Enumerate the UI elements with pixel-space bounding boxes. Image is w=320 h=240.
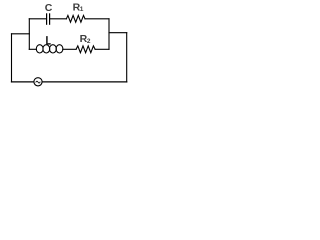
wire bottom rail right of source bbox=[42, 81, 127, 83]
wire right jog bbox=[109, 32, 127, 34]
inductor L coil loop 1 bbox=[36, 45, 43, 53]
svg-text:2: 2 bbox=[87, 38, 91, 45]
wire top rail left segment bbox=[29, 18, 46, 20]
wire left inner vertical bbox=[28, 19, 30, 50]
resistor R1 zigzag bbox=[66, 15, 85, 22]
capacitor C right plate bbox=[49, 14, 51, 24]
AC source sine symbol bbox=[36, 81, 40, 83]
wire L to R2 bbox=[63, 48, 76, 50]
inductor L coil loop 2 bbox=[43, 45, 50, 53]
AC source circle bbox=[34, 78, 42, 86]
capacitor C left plate bbox=[46, 14, 48, 24]
wire right inner vertical bbox=[108, 19, 110, 50]
wire left jog bbox=[12, 33, 30, 35]
wire middle rail left segment bbox=[29, 48, 36, 50]
resistor R2 zigzag bbox=[76, 46, 95, 53]
wire R1 to top-right corner bbox=[85, 18, 109, 20]
svg-text:1: 1 bbox=[80, 6, 84, 13]
wire R2 to right inner vertical bbox=[95, 48, 109, 50]
wire left outer vertical bbox=[11, 34, 13, 82]
wire right outer vertical bbox=[126, 33, 128, 82]
inductor L coil loop 3 bbox=[50, 45, 57, 53]
wire capacitor to R1 bbox=[50, 18, 66, 20]
inductor L coil loop 4 bbox=[56, 45, 63, 53]
wire bottom rail left of source bbox=[12, 81, 34, 83]
svg-text:C: C bbox=[45, 2, 53, 14]
label L bbox=[46, 36, 51, 45]
